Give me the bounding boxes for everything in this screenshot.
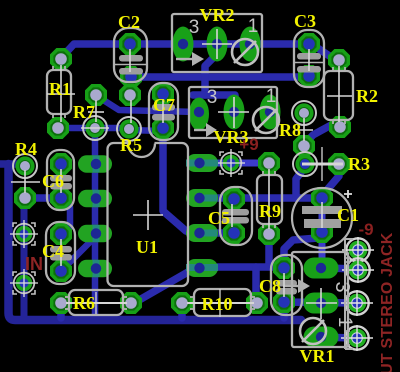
R4 pad 1 <box>13 154 37 178</box>
wire: R5 bottom diagonal <box>58 128 161 131</box>
svg-text:U1: U1 <box>136 237 158 257</box>
wire: C2 bottom to C3 bottom rail y=77 <box>127 73 308 81</box>
wire: R4 top to left edge <box>0 160 25 168</box>
VR3 pad 2 <box>224 95 245 130</box>
C1 pad - <box>311 221 333 243</box>
C1 plus mark <box>344 190 352 198</box>
svg-text:R2: R2 <box>356 86 378 106</box>
R8 pad 2 <box>293 135 315 157</box>
svg-text:R4: R4 <box>15 139 37 159</box>
wire: C3 top to R2 top <box>309 45 339 61</box>
C4 body <box>46 222 75 284</box>
C3 body <box>294 30 324 87</box>
VR3 wiper <box>253 107 279 133</box>
VR2 pad 1 <box>240 27 261 62</box>
wire: C8 bottom to VR1 middle to jack <box>284 302 352 303</box>
wire: VR2 wiper down to VR3 pad 2 <box>205 47 217 95</box>
jack bracket <box>344 239 346 349</box>
C3 pad 1 <box>298 33 320 55</box>
VR1 wiper <box>300 318 326 344</box>
svg-text:C1: C1 <box>337 205 359 225</box>
svg-text:1: 1 <box>248 16 259 37</box>
VR1 box <box>292 252 348 347</box>
C6 pad 2 <box>50 187 72 209</box>
svg-text:VR2: VR2 <box>200 5 235 25</box>
wire: U1 pin to C5 top to C1 top rail y=198 <box>199 194 322 202</box>
U1 left pad 4 <box>78 260 112 278</box>
C4 pad 1 <box>50 223 72 245</box>
R10 body <box>194 289 251 316</box>
svg-text:IN: IN <box>25 254 43 274</box>
svg-text:3: 3 <box>207 87 218 108</box>
svg-text:+9: +9 <box>239 135 258 154</box>
VR2 pad 3 <box>173 27 194 62</box>
R1 pad 2 <box>47 117 69 139</box>
svg-text:R10: R10 <box>202 294 233 314</box>
wire: C7 bottom through U1 to pin <box>163 130 197 233</box>
VR3 arrow <box>194 129 206 131</box>
wire: R7 bottom long vertical to bottom bus <box>92 131 99 318</box>
VR3 box <box>189 87 277 138</box>
resistor neck marks <box>52 66 54 70</box>
R1 body <box>47 70 71 114</box>
wire: stub down to R10 right <box>252 267 260 300</box>
wire: R10 left stub to bus <box>178 308 186 318</box>
VR3 pad 3 <box>189 98 209 131</box>
capacitor C1 body <box>292 188 352 248</box>
C6 pad 1 <box>50 153 72 175</box>
via C <box>217 149 245 177</box>
svg-text:-9: -9 <box>358 220 373 239</box>
VR2 wiper <box>232 39 258 65</box>
svg-text:C5: C5 <box>208 208 230 228</box>
C5 pad 2 <box>223 222 245 244</box>
R8 pad 1 <box>292 101 316 125</box>
C8 plates <box>276 280 297 295</box>
trace-over-pad tint <box>93 156 100 173</box>
svg-text:C6: C6 <box>42 171 64 191</box>
U1 right pad 3 <box>186 224 218 242</box>
VR2 box <box>172 14 262 72</box>
R9 pad 1 <box>258 152 280 174</box>
svg-text:R9: R9 <box>259 201 281 221</box>
R5 pad 1 <box>119 84 141 106</box>
svg-text:R6: R6 <box>73 293 95 313</box>
svg-text:1: 1 <box>334 317 355 328</box>
R2 body <box>324 71 353 120</box>
svg-text:C8: C8 <box>259 276 281 296</box>
wire: C8 bottom stub to bus <box>280 307 288 318</box>
R10 pad 2 <box>246 292 268 314</box>
R6 pad 2 <box>120 292 142 314</box>
C8 body <box>271 255 302 315</box>
R4 pad 2 <box>14 187 36 209</box>
C5 pad 1 <box>223 188 245 210</box>
svg-text:C4: C4 <box>42 241 64 261</box>
wire: R4 bottom to C6 bottom <box>25 194 62 202</box>
wire: U1 pin row4 to C8 top rail y=267 <box>199 263 283 271</box>
wire: C6 bottom to C4 top <box>62 199 70 235</box>
R2 pad 1 <box>328 49 350 71</box>
VR1 pad 1 <box>304 327 339 348</box>
svg-text:VR1: VR1 <box>300 346 335 366</box>
C2 pad 1 <box>119 33 141 55</box>
U1 left pad 2 <box>78 190 112 208</box>
VR2 arrow <box>176 58 192 60</box>
lead lines / origin crosses <box>60 65 62 122</box>
R3 pad 1 <box>293 152 317 176</box>
wire: R1 top to C2/VR2/C3 top rail y=44 <box>61 44 308 58</box>
svg-text:R3: R3 <box>348 154 370 174</box>
wire: VR1 bottom to jack sleeve <box>321 337 353 338</box>
svg-text:R7: R7 <box>73 102 95 122</box>
U1 right pad 4 <box>186 259 218 277</box>
R7 pad 2 <box>83 116 107 140</box>
VR1 pad 3 <box>304 258 339 279</box>
wire: U1 pin row to R9 top (bright) <box>199 160 269 167</box>
wire: via column vertical <box>21 199 28 318</box>
via A <box>10 220 38 248</box>
U1 body <box>108 143 189 286</box>
jack pad 3 <box>341 290 373 316</box>
U1 left pad 1 <box>78 155 112 173</box>
C8 pad 2 <box>273 291 295 313</box>
jack pad tip <box>342 237 374 263</box>
VR1 arrow <box>283 285 298 287</box>
VR3 pad 1 <box>260 95 281 130</box>
R3 pad 2 <box>328 153 350 175</box>
C4 plates <box>50 246 72 261</box>
C7 plates <box>152 104 175 121</box>
C4 pad 2 <box>50 260 72 282</box>
C1 plates <box>302 206 342 214</box>
C2 body <box>114 28 147 82</box>
C1 pad + <box>311 187 333 209</box>
U1 right pad 1 <box>186 154 218 172</box>
R1 pad 1 <box>50 48 72 70</box>
R2 pad 2 <box>329 116 351 138</box>
C6 body <box>47 150 74 210</box>
C2 pad 2 <box>120 66 142 88</box>
pad holes over tint <box>91 159 101 169</box>
R7 pad 1 <box>85 84 107 106</box>
svg-text:R8: R8 <box>279 120 301 140</box>
svg-text:3: 3 <box>331 281 353 292</box>
C5 plates <box>222 209 249 224</box>
VR1 pad 2 <box>304 293 339 314</box>
wire: R3 left down to y=198 rail <box>296 167 305 198</box>
C7 pad 1 <box>152 83 174 105</box>
wire: R6 left stub to bus <box>57 308 65 318</box>
R5 pad 2 <box>117 117 141 141</box>
C6 plates <box>50 175 72 190</box>
R9 pad 2 <box>258 223 280 245</box>
wire: R9 bottom stub <box>265 240 273 266</box>
R10 pad 1 <box>171 292 193 314</box>
wire: C1 vertical through pads to VR1 top (bright) <box>319 196 326 268</box>
svg-text:R1: R1 <box>49 79 71 99</box>
svg-text:3: 3 <box>189 17 200 38</box>
svg-text:C3: C3 <box>294 11 316 31</box>
U1 left pad 3 <box>78 225 112 243</box>
jack pad sleeve <box>341 325 373 351</box>
C2 plates <box>119 55 143 75</box>
R9 body <box>257 175 282 224</box>
via B <box>10 269 38 297</box>
svg-text:C2: C2 <box>118 12 140 32</box>
C3 pad 2 <box>298 65 320 87</box>
C7 body <box>149 83 178 140</box>
R6 pad 1 <box>50 292 72 314</box>
wire: R8 bottom to R2 bottom <box>304 124 340 145</box>
svg-text:C7: C7 <box>153 95 175 115</box>
svg-text:OUT STEREO JACK: OUT STEREO JACK <box>379 232 396 372</box>
VR2 pad 2 <box>207 27 228 62</box>
svg-text:R5: R5 <box>120 135 142 155</box>
wire: VR1 top to jack ring <box>330 268 353 269</box>
wire: left vertical and bottom bus <box>9 164 302 320</box>
wire: R3 right to C1 top <box>322 167 339 197</box>
svg-text:1: 1 <box>266 86 277 107</box>
C8 pad 1 <box>273 257 295 279</box>
wire: C4 bottom diagonal to U1 pin <box>63 237 95 269</box>
wire: C8 top to C1 bottom <box>284 235 322 265</box>
C3 plates <box>297 53 321 73</box>
C7 pad 2 <box>152 117 174 139</box>
wire: R7 top to VR3 pad 3 <box>97 96 198 112</box>
R6 body <box>69 290 123 315</box>
C5 body <box>220 187 252 245</box>
wire: U1 pin to C5 bottom <box>199 229 234 237</box>
U1 notch <box>129 142 155 146</box>
jack pad ring <box>342 257 374 283</box>
U1 right pad 2 <box>186 189 218 207</box>
wire: R6 right diagonal to U1 pin <box>133 269 197 303</box>
